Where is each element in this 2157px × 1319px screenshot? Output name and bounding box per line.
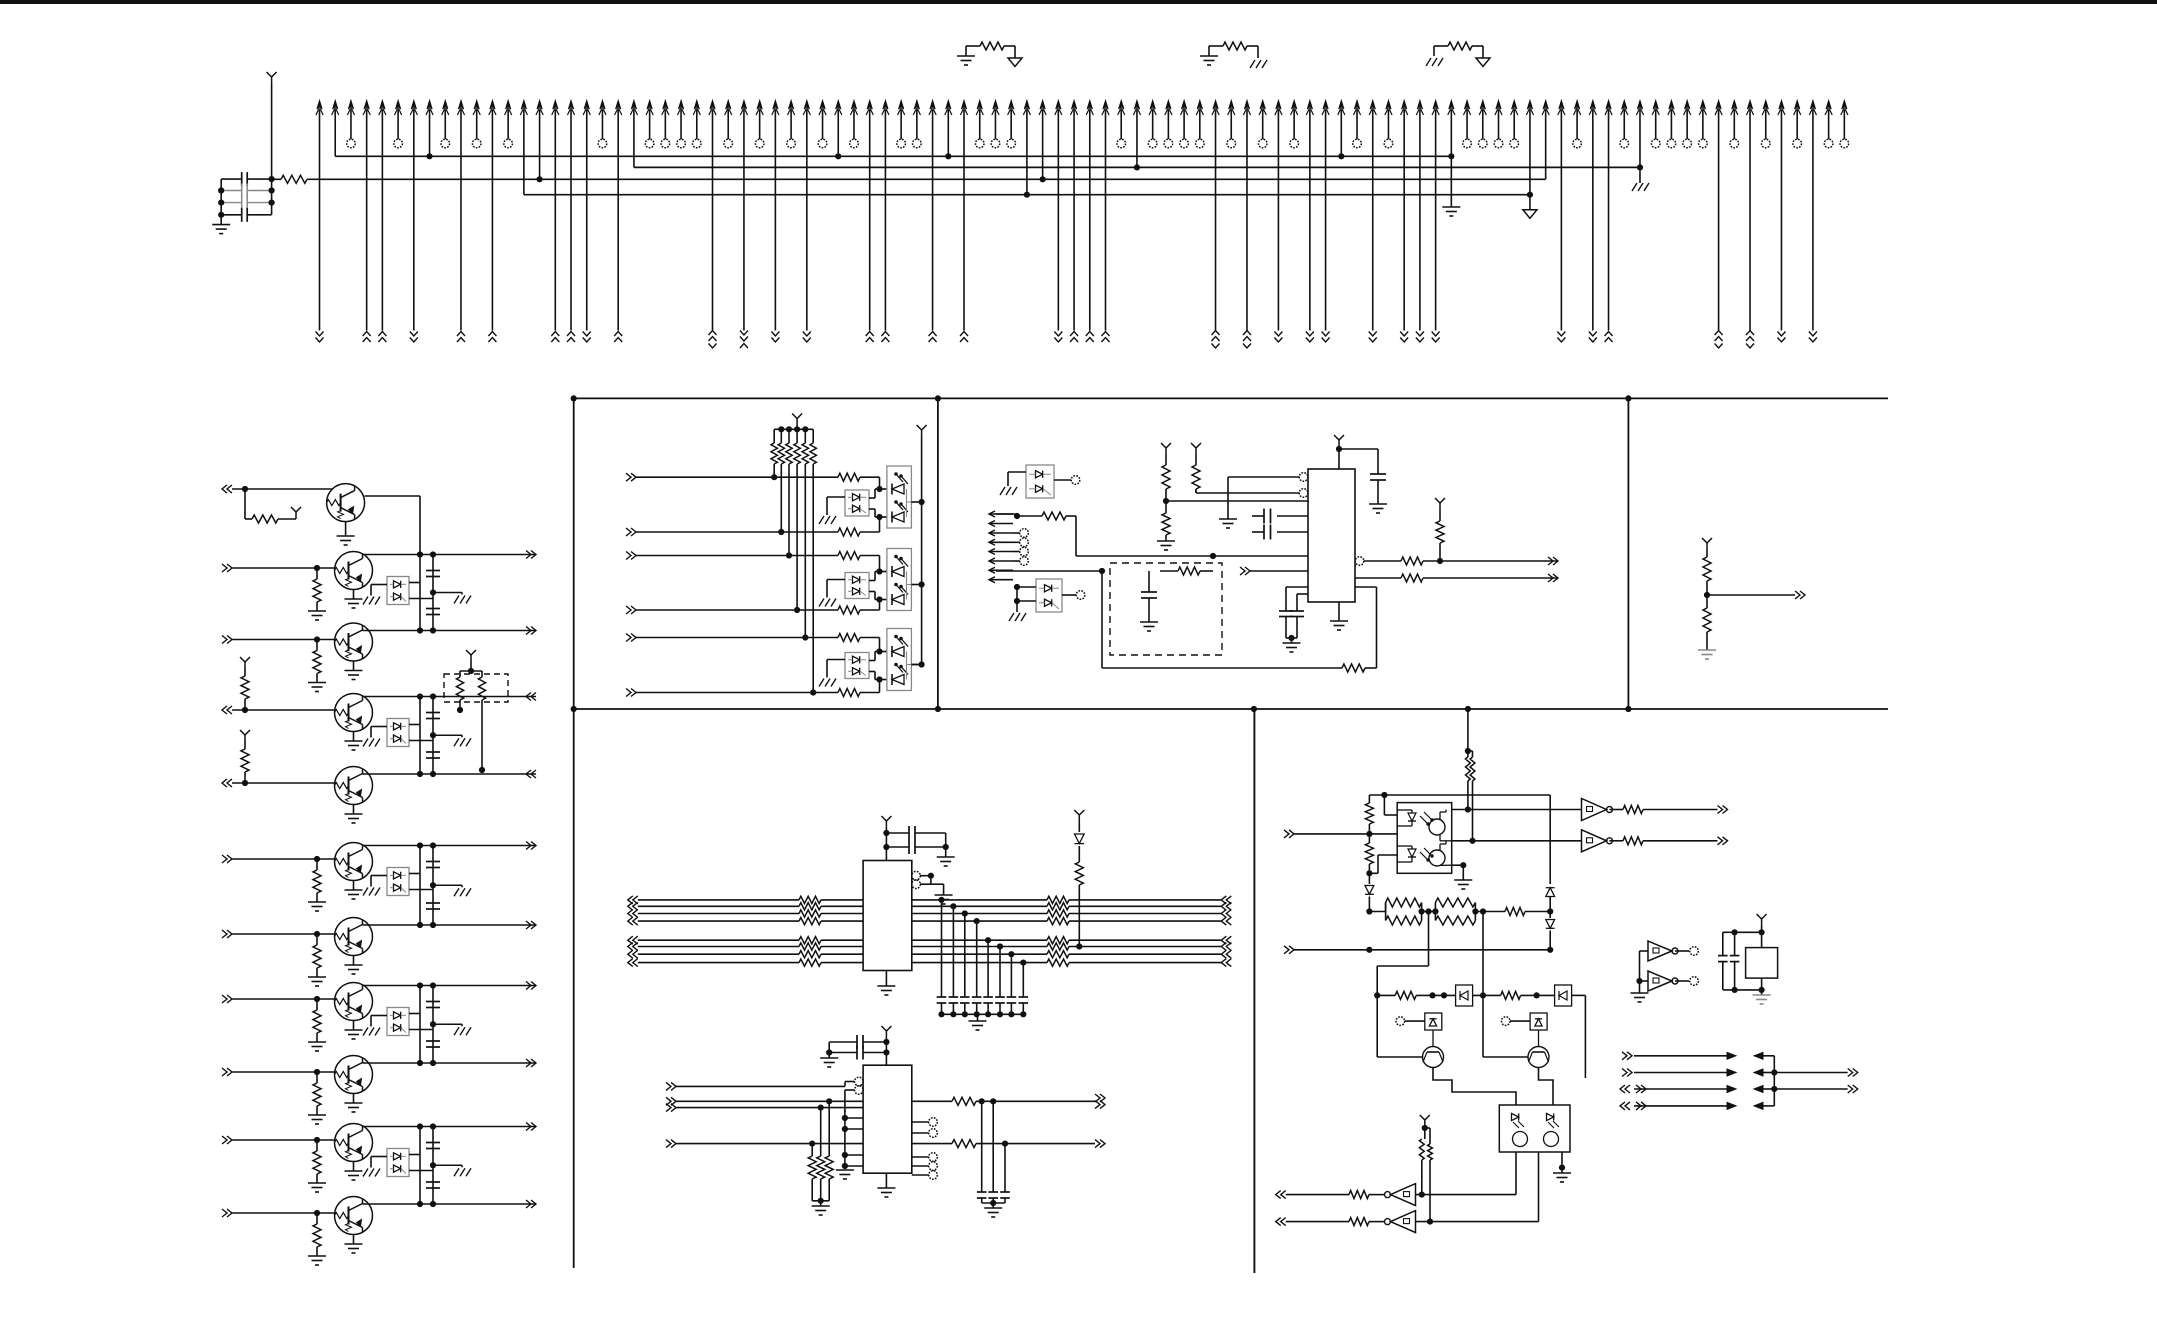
- node stage input 934: [227, 930, 232, 938]
- ground: [363, 1028, 368, 1036]
- capacitor CT5: [983, 996, 993, 998]
- wire U7 line2 left: [628, 902, 633, 910]
- node stage input 783: [222, 779, 227, 787]
- diode array box U4: [1026, 465, 1054, 498]
- pin row: [1020, 529, 1029, 538]
- node tap6: [997, 943, 1003, 949]
- wire zener gnd: [827, 496, 845, 498]
- wire connector line 79: [1543, 101, 1548, 110]
- power supply Y9: [1706, 543, 1708, 550]
- output mark: [531, 627, 536, 635]
- pin drive1: [1396, 1017, 1405, 1026]
- wire connector line 62: [1276, 101, 1281, 110]
- wire comb arrow 3: [989, 530, 995, 536]
- diode box D6: [1555, 985, 1572, 1006]
- node tap2: [950, 903, 956, 909]
- ground: [1009, 613, 1014, 621]
- wire U7 line8 right: [912, 962, 1047, 964]
- capacitor C1: [221, 178, 242, 180]
- ground: [308, 610, 326, 612]
- wire connector line 71: [1417, 101, 1422, 110]
- wire U6 top: [1338, 449, 1340, 469]
- wire feedback up: [1365, 667, 1377, 669]
- wire connector line 17: [568, 101, 573, 110]
- wire connector line 1: [317, 101, 322, 110]
- transistor Q11: [1528, 1047, 1549, 1068]
- output marks: [1723, 806, 1728, 814]
- wire connector line 53: [1134, 101, 1139, 110]
- power supply Y4: [921, 430, 923, 437]
- wire connector line 67: [1354, 101, 1359, 110]
- ground: [345, 1029, 363, 1031]
- wire connector line 22: [647, 101, 652, 110]
- node tap7: [1008, 951, 1014, 957]
- wire connector line 31: [789, 101, 794, 110]
- diode array box U2a: [845, 573, 869, 599]
- wire vert rail2: [432, 986, 434, 1064]
- wire connector line 91: [1732, 101, 1737, 110]
- diode array box U5: [1036, 579, 1062, 612]
- resistor R30b: [1470, 757, 1475, 781]
- wire frame mid-bottom right edge: [1253, 709, 1255, 1273]
- resistor R3 with grounds: [1208, 46, 1210, 56]
- ground Q1: [337, 535, 355, 537]
- ground: [1454, 879, 1472, 881]
- node stage input 1213: [227, 1209, 232, 1217]
- wire D7 down: [1432, 1030, 1434, 1047]
- wire emitter 999: [353, 1021, 355, 1031]
- node stage input 640: [227, 636, 232, 644]
- ic U7: [863, 861, 912, 971]
- wire comb line1: [996, 513, 1017, 515]
- resistor RL2: [799, 903, 821, 910]
- ground: [836, 1169, 854, 1171]
- wire connector line 51: [1103, 101, 1108, 110]
- ground: [345, 964, 363, 966]
- ground: [1283, 642, 1301, 644]
- wire zener gnd: [827, 659, 845, 661]
- wire connector line 54: [1150, 101, 1155, 110]
- output mark: [531, 1200, 536, 1208]
- wire connector line 8: [427, 101, 432, 110]
- node stage input 710: [222, 706, 227, 714]
- diode array box: [387, 1008, 409, 1036]
- output mark: [531, 842, 536, 850]
- wire bus B: [634, 166, 1640, 168]
- wire zener right: [409, 582, 420, 584]
- resistor RR1: [1047, 896, 1069, 903]
- wire tap7: [1010, 954, 1012, 997]
- wire connector line 16: [553, 101, 558, 110]
- wire connector line 55: [1166, 101, 1171, 110]
- resistor RL4: [799, 918, 821, 925]
- wire connector line 35: [851, 101, 856, 110]
- U11 LED1: [1512, 1113, 1519, 1120]
- resistor R16: [1401, 557, 1423, 565]
- transistor stage 859: [335, 843, 373, 881]
- resistor RP4: [1434, 912, 1436, 921]
- wire connector line 10: [458, 101, 463, 110]
- transistor stage 568: [335, 552, 373, 590]
- wire header row 4: [1620, 1102, 1625, 1110]
- wire U7 line4 right: [912, 920, 1047, 922]
- wire connector line 37: [883, 101, 888, 110]
- resistor R18: [1401, 574, 1423, 582]
- wire LED out: [911, 584, 921, 586]
- wire xtal bottom: [1761, 978, 1763, 995]
- input mark: [1221, 959, 1226, 967]
- wire U9 out2: [1452, 840, 1582, 842]
- wire U8 aux rail: [844, 1110, 846, 1168]
- input mark: [1289, 830, 1294, 838]
- node cap join: [828, 1042, 830, 1058]
- ground: [363, 739, 368, 747]
- resistor RA2: [838, 552, 860, 560]
- wire U9 gnd pin: [1452, 864, 1464, 866]
- wire connector line 92: [1747, 101, 1752, 110]
- output mark: [531, 982, 536, 990]
- power supply: [244, 735, 246, 741]
- node stage input 859: [227, 855, 232, 863]
- wire connector line 15: [537, 101, 542, 110]
- wire pack top bar: [460, 670, 482, 672]
- ground: [454, 596, 459, 604]
- output mark: [1723, 837, 1728, 845]
- wire Q10 base: [1376, 995, 1378, 1057]
- capacitor C13: [1370, 473, 1386, 475]
- wire connector line 66: [1339, 101, 1344, 110]
- optocoupler U11: [1499, 1105, 1570, 1152]
- wire emitter 859: [353, 881, 355, 891]
- wire to LED B: [860, 531, 880, 533]
- output mark: [1800, 591, 1805, 599]
- wire U7 pins gnd: [931, 883, 944, 885]
- resistor RR6: [1047, 943, 1069, 950]
- ground: [1753, 994, 1771, 996]
- ground: [819, 599, 824, 607]
- resistor RR4: [1047, 918, 1069, 925]
- output mark: [526, 693, 531, 701]
- wire vert rail1: [419, 1127, 421, 1205]
- resistor R34: [1610, 840, 1624, 842]
- capacitor CT1: [937, 996, 947, 998]
- wire Y11 stem: [1078, 822, 1080, 832]
- wire tap gnd stem: [977, 1014, 979, 1021]
- resistor R1: [272, 178, 281, 180]
- resistor R30: [1466, 757, 1471, 781]
- resistor RR3: [1047, 910, 1069, 917]
- diode array box: [387, 577, 409, 605]
- wire U7 line6 left: [628, 943, 633, 951]
- capacitor C24: [1734, 932, 1736, 955]
- wire R10 to IC: [1075, 516, 1077, 556]
- wire U12a out: [1416, 1194, 1517, 1196]
- resistor R20: [1706, 595, 1708, 608]
- wire connector line 4: [364, 101, 369, 110]
- node R bottoms: [812, 1200, 829, 1202]
- wire R38b: [1429, 1139, 1431, 1144]
- capacitor C21: [992, 1101, 994, 1192]
- node LED taps: [876, 648, 882, 654]
- diode box D8: [1530, 1013, 1547, 1030]
- transistor stage 710: [335, 694, 373, 732]
- wire vert rail1: [419, 846, 421, 926]
- LED symbols: [891, 484, 893, 495]
- power supply Y8: [1439, 503, 1441, 510]
- node stage input 1140: [227, 1136, 232, 1144]
- wire to LED A: [860, 476, 880, 478]
- resistor R36: [1395, 991, 1416, 999]
- wire connector line 69: [1386, 101, 1391, 110]
- wire LED supply rail: [921, 437, 923, 665]
- input mark: [1221, 896, 1226, 904]
- ground: [363, 1169, 368, 1177]
- wire zener left: [371, 726, 387, 728]
- input mark4: [1276, 1218, 1281, 1226]
- power supply: [244, 662, 246, 668]
- resistor pulldown 1140: [316, 1140, 318, 1151]
- wire opto pin1: [1383, 795, 1385, 815]
- ground: [308, 1114, 326, 1116]
- pin U8 in1b: [855, 1086, 864, 1095]
- wire connector line 41: [946, 101, 951, 110]
- wire connector line 36: [867, 101, 872, 110]
- wire connector line 38: [899, 101, 904, 110]
- U11 QT1: [1513, 1132, 1528, 1147]
- wire connector line 94: [1779, 101, 1784, 110]
- wire connector line 5: [380, 101, 385, 110]
- wire connector line 89: [1700, 101, 1705, 110]
- wire D8 down: [1538, 1030, 1540, 1047]
- node stage input 999: [227, 995, 232, 1003]
- transistor stage 783: [335, 767, 373, 805]
- power supply Y5: [1195, 448, 1197, 455]
- wire zener left: [371, 1156, 387, 1158]
- wire U7 line2 right: [912, 905, 1047, 907]
- wire bus A: [335, 155, 1451, 157]
- wire pack stem: [470, 661, 472, 671]
- capacitor C4: [221, 214, 242, 216]
- input mark: [1221, 936, 1226, 944]
- node LED taps: [876, 486, 882, 492]
- power supply Y7: [1338, 440, 1340, 447]
- capacitor C17: [886, 846, 909, 848]
- resistor R35: [1505, 908, 1525, 916]
- node cap mid: [430, 1021, 436, 1027]
- output mark: [531, 921, 536, 929]
- wire tap6: [999, 947, 1001, 998]
- resistor R17 pullup: [1439, 543, 1441, 561]
- wire connector line 48: [1056, 101, 1061, 110]
- pin U7 b: [912, 880, 921, 889]
- wire connector line 58: [1213, 101, 1218, 110]
- resistor R23: [820, 1108, 822, 1156]
- wire connector line 14: [521, 101, 526, 110]
- wire connector line 80: [1559, 101, 1564, 110]
- input mark: [1221, 910, 1226, 918]
- wire emitter 568: [353, 590, 355, 600]
- wire U7 line8 left: [628, 959, 633, 967]
- wire frame divider mid: [574, 708, 1888, 710]
- capacitor C3: [221, 202, 242, 204]
- input mark3: [1276, 1191, 1281, 1199]
- crystal X1: [1746, 948, 1778, 979]
- pin U8 r1: [929, 1118, 938, 1127]
- resistor R15: [1162, 513, 1170, 535]
- resistor R2 with grounds: [965, 46, 967, 56]
- output mark: [531, 1123, 536, 1131]
- resistor pullup 783: [244, 741, 246, 749]
- wire tap4: [976, 921, 978, 997]
- wire connector line 60: [1244, 101, 1249, 110]
- ground: [969, 1020, 987, 1022]
- ground: [345, 889, 363, 891]
- wire zener right: [409, 724, 420, 726]
- wire connector line 2: [333, 101, 338, 110]
- node LED taps: [876, 568, 882, 574]
- transistor stage 1072: [335, 1056, 373, 1094]
- resistor R25: [952, 1097, 976, 1105]
- input mark2: [1289, 946, 1294, 954]
- wire connector line 13: [506, 101, 511, 110]
- resistor R5 to supply: [244, 489, 246, 519]
- wire connector line 18: [584, 101, 589, 110]
- wire Y12 stem: [885, 1038, 887, 1065]
- wire header out1: [1774, 1072, 1847, 1074]
- wire connector line 49: [1071, 101, 1076, 110]
- wire connector line 29: [757, 101, 762, 110]
- wire connector line 56: [1182, 101, 1187, 110]
- diode D1: [1075, 834, 1085, 844]
- resistor RL7: [799, 951, 821, 958]
- node cap mid: [430, 732, 436, 738]
- wire U9 out1: [1452, 809, 1582, 811]
- power supply symbol VCC: [271, 77, 273, 84]
- resistor pack R-A: [459, 671, 461, 677]
- wire connector line 7: [411, 101, 416, 110]
- capacitor pair: [426, 1001, 440, 1003]
- wire U8 out1: [912, 1100, 952, 1102]
- node tap5: [985, 937, 991, 943]
- wire inv rail: [1639, 951, 1641, 981]
- wire header vert: [1773, 1056, 1775, 1106]
- wire connector line 82: [1590, 101, 1595, 110]
- wire header row 2: [1627, 1069, 1632, 1077]
- wire vert rail1: [419, 697, 421, 775]
- ground: [820, 1057, 838, 1059]
- wire opto2 input B: [631, 606, 636, 614]
- input mark: [1221, 943, 1226, 951]
- wire connector line 26: [710, 101, 715, 110]
- node stage input 1072: [227, 1068, 232, 1076]
- capacitor C16: [886, 832, 909, 834]
- U11 LED2: [1547, 1113, 1554, 1120]
- wire U5 right pin: [1062, 594, 1076, 596]
- wire connector line 27: [726, 101, 731, 110]
- ground: [454, 738, 459, 746]
- wire U6 gnd: [1338, 602, 1340, 621]
- wire connector line 42: [961, 101, 966, 110]
- capacitor C20: [981, 1101, 983, 1192]
- wire collector 630: [363, 630, 537, 632]
- wire bus D: [524, 194, 1530, 196]
- capacitor pair: [426, 1142, 440, 1144]
- ground: [1140, 621, 1158, 623]
- wire VCC stem: [271, 84, 273, 215]
- resistor R19: [1706, 550, 1708, 557]
- wire U12b out: [1416, 1221, 1539, 1223]
- wire vert rail1: [419, 555, 421, 631]
- inverter U13a: [1648, 941, 1672, 961]
- ground: [345, 813, 363, 815]
- wire connector line 75: [1480, 101, 1485, 110]
- wire opto pin3: [1378, 854, 1397, 856]
- LED symbols: [891, 646, 893, 657]
- power supply Y11: [1078, 815, 1080, 822]
- ground: [819, 679, 824, 687]
- wire connector line 73: [1449, 101, 1454, 110]
- wire U7 gnd: [885, 971, 887, 987]
- wire connector line 95: [1795, 101, 1800, 110]
- transistor stage 640: [335, 623, 373, 661]
- resistor R12: [1342, 664, 1365, 672]
- resistor RB2: [838, 606, 860, 614]
- wire connector line 76: [1496, 101, 1501, 110]
- wire Q11 base: [1482, 995, 1484, 1057]
- wire connector line 24: [678, 101, 683, 110]
- node stage input 568: [227, 564, 232, 572]
- shield dashed box: [1110, 563, 1222, 655]
- wire connector line 64: [1307, 101, 1312, 110]
- wire collector 696: [363, 696, 537, 698]
- U9 LED2: [1397, 845, 1412, 847]
- ground: [1698, 649, 1716, 651]
- wire drv right: [1572, 994, 1586, 996]
- resistor pulldown 568: [316, 568, 318, 579]
- power supply Y10: [885, 821, 887, 828]
- wire emitter 1072: [353, 1094, 355, 1104]
- resistor R13: [1192, 465, 1200, 489]
- node cap join: [945, 833, 947, 857]
- transistor stage 1213: [335, 1197, 373, 1235]
- power supply Y12: [885, 1031, 887, 1038]
- capacitor pair: [426, 861, 440, 863]
- wire vert rail2: [432, 697, 434, 775]
- wire zener gnd: [827, 579, 845, 581]
- diode array box: [387, 719, 409, 747]
- resistor pair A: [1385, 903, 1387, 912]
- wire zener to LED: [869, 497, 875, 499]
- transistor stage 1140: [335, 1124, 373, 1162]
- wire connector line 3: [348, 101, 353, 110]
- wire connector line 77: [1512, 101, 1517, 110]
- ground: [1369, 503, 1387, 505]
- wire Q11 to opto: [1539, 1068, 1554, 1106]
- ground: [454, 888, 459, 896]
- wire connector line 59: [1229, 101, 1234, 110]
- wire connector line 33: [820, 101, 825, 110]
- wire connector line 44: [993, 101, 998, 110]
- resistor RN5: [804, 429, 806, 443]
- node divider: [1704, 592, 1710, 598]
- ground: [308, 976, 326, 978]
- output mark: [1100, 1140, 1105, 1148]
- wire connector line 46: [1024, 101, 1029, 110]
- diode array box U3a: [845, 653, 869, 679]
- wire tap bus: [942, 1013, 1024, 1015]
- ground: [454, 1027, 459, 1035]
- wire U8 in2: [671, 1097, 676, 1105]
